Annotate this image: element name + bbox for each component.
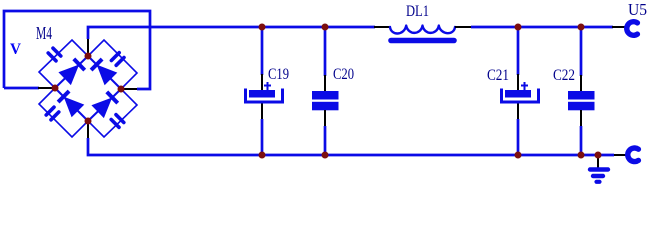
wire: snubber detour lower-right: [88, 89, 137, 137]
svg-text:M4: M4: [36, 23, 52, 43]
capacitor snubber UR (two plates): [111, 53, 124, 66]
wire: snubber detour upper-left: [39, 40, 88, 88]
wire: AC source loop (left vertical, top edge, right vertical): [4, 11, 150, 89]
capacitor C21: top pin: [517, 74, 519, 90]
svg-text:C20: C20: [333, 66, 354, 83]
capacitor C21: plus sign: [521, 82, 528, 90]
capacitor C22: bottom lead wire: [580, 126, 583, 155]
node: C20 top: [322, 24, 329, 31]
pin: bridge left AC pin: [38, 87, 55, 89]
bridge M4: diamond edge upper-left: [55, 56, 88, 88]
svg-text:DL1: DL1: [406, 3, 429, 20]
wire: top rail after inductor to connector: [471, 26, 613, 29]
capacitor snubber LR (two plates): [111, 115, 124, 128]
diode D-UL (bar + triangle, cathode at top corner): [59, 59, 84, 84]
connector U5: bottom pin: [614, 154, 627, 156]
bridge M4: diamond edge lower-left: [55, 88, 88, 121]
node: bridge bottom corner: [85, 118, 92, 125]
node: bridge left corner: [52, 85, 59, 92]
connector U5: top pin: [612, 26, 626, 28]
wire: bridge plus riser to top rail: [88, 27, 375, 39]
node: C20 bottom: [322, 152, 329, 159]
ground: bar 3: [597, 180, 600, 184]
wire: snubber detour upper-right: [88, 40, 137, 89]
diode D-LL (bar + triangle, cathode at left corner): [58, 91, 83, 116]
pin: bridge minus pin (bottom corner down): [87, 121, 89, 138]
node: bridge right corner: [118, 86, 125, 93]
node: bridge top corner: [85, 53, 92, 60]
capacitor C19: negative cup plate: [246, 89, 283, 103]
wire: source to bridge left corner: [4, 87, 39, 90]
inductor DL1: core bar: [391, 38, 454, 44]
inductor DL1: coil: [390, 26, 455, 34]
capacitor C20: top pin: [324, 75, 326, 91]
inductor DL1: right pin: [455, 26, 471, 28]
svg-text:U5: U5: [628, 0, 647, 19]
node: C19 top: [259, 24, 266, 31]
capacitor C19: positive plate: [249, 90, 275, 98]
bridge M4: diamond edge upper-right: [88, 56, 121, 89]
diode D-UR (bar + triangle, cathode at top corner): [91, 59, 116, 84]
connector U5: bottom crescent: [628, 148, 639, 162]
capacitor C22: bottom plate: [568, 102, 595, 111]
node: C22 bottom: [578, 152, 585, 159]
wire: bridge minus drop to bottom rail: [88, 138, 614, 155]
capacitor C19: top pin: [261, 74, 263, 90]
bridge M4: diamond edge lower-right: [88, 89, 121, 121]
capacitor C22: top pin: [580, 75, 582, 91]
capacitor C22: top plate: [568, 91, 595, 100]
inductor DL1: left pin: [374, 26, 391, 28]
node: ground junction: [595, 152, 602, 159]
node: C19 bottom: [259, 152, 266, 159]
node: C22 top: [578, 24, 585, 31]
wire: snubber detour lower-left: [39, 88, 88, 137]
capacitor C21: bottom pin: [517, 104, 519, 120]
ground: bar 2: [593, 174, 603, 178]
capacitor C21 (electrolytic): top lead wire: [517, 27, 520, 75]
pin: bridge right AC pin: [121, 88, 137, 90]
capacitor C19: plus sign: [264, 82, 271, 90]
svg-text:C21: C21: [487, 67, 509, 84]
capacitor C19: bottom lead wire: [261, 119, 264, 155]
capacitor C21: bottom lead wire: [517, 119, 520, 155]
pin: bridge plus pin (top corner up): [87, 39, 89, 56]
ground: bar 1: [590, 167, 608, 171]
svg-text:C19: C19: [268, 66, 289, 83]
capacitor C19 (electrolytic): top lead wire: [261, 27, 264, 75]
node: C21 top: [515, 24, 522, 31]
capacitor C19: bottom pin: [261, 104, 263, 120]
capacitor C22: bottom pin: [580, 110, 582, 126]
capacitor snubber LL (two plates): [46, 107, 59, 120]
svg-text:C22: C22: [553, 67, 575, 84]
capacitor C21: negative cup plate: [502, 89, 539, 103]
capacitor C20: bottom pin: [324, 110, 326, 126]
capacitor C21: positive plate: [505, 90, 531, 98]
capacitor C20: bottom plate: [312, 102, 339, 111]
node: C21 bottom: [515, 152, 522, 159]
svg-text:V: V: [10, 41, 21, 58]
capacitor C22: top lead wire: [580, 27, 583, 76]
connector U5: top crescent: [627, 22, 638, 36]
capacitor snubber UL (two plates): [48, 48, 61, 61]
capacitor C20: top plate: [312, 91, 339, 100]
diode D-LR (bar + triangle, cathode at right corner): [92, 92, 117, 117]
ground: stub: [597, 155, 599, 168]
capacitor C20: bottom lead wire: [324, 126, 327, 155]
capacitor C20: top lead wire: [324, 27, 327, 76]
